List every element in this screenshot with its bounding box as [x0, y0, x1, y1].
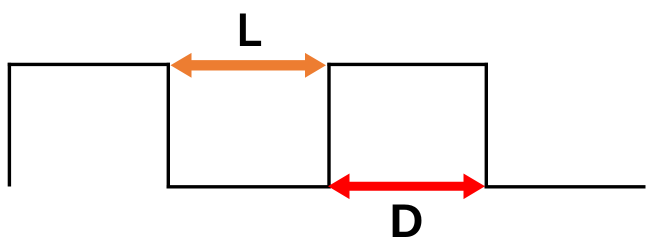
dimension arrow L (orange double arrow) [171, 53, 327, 78]
wire: high level 2 [327, 63, 488, 66]
wire: rising edge 2 [327, 63, 330, 189]
wire: rising edge 1 [8, 63, 11, 187]
svg-text:L: L [237, 4, 262, 56]
wire: falling edge 1 [167, 63, 170, 189]
wire: low level 1 [167, 185, 331, 188]
wire: high level 1 [8, 63, 170, 66]
wire: low level 2 [485, 185, 646, 188]
wire: falling edge 2 [485, 63, 488, 189]
svg-text:D: D [390, 194, 424, 247]
dimension arrow D (red double arrow) [328, 174, 485, 200]
